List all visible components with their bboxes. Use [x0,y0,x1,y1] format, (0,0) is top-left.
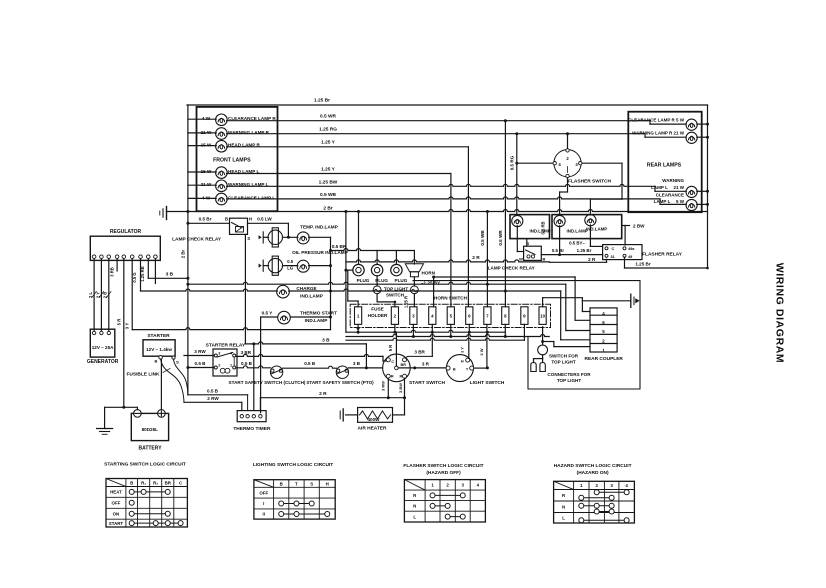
table starting switch logic circuit [106,479,187,528]
svg-text:TOP LIGHT: TOP LIGHT [557,378,582,383]
svg-text:THERMO TIMER: THERMO TIMER [233,426,271,432]
svg-text:0.5 LW: 0.5 LW [257,217,272,222]
ground symbol rear coupler [630,294,632,307]
wire 1.25 Br flasher relay 49 return [624,257,626,268]
svg-text:R₁: R₁ [141,480,146,485]
lamp warning lamp R front [201,128,270,140]
regulator [90,236,160,260]
wire lamp left stub [188,184,216,186]
svg-text:0.5 Br: 0.5 Br [199,217,212,222]
wire 0.5 B starter relay to clutch switch [236,366,270,368]
wire lamp left stub [188,171,216,173]
svg-text:3 W: 3 W [479,348,484,355]
svg-text:1 Y: 1 Y [460,347,465,353]
svg-text:2 B: 2 B [103,292,108,299]
svg-text:12V – 25A: 12V – 25A [92,345,114,350]
starter relay [213,349,237,376]
wire lamp left stub [188,197,216,199]
svg-text:0.5 G: 0.5 G [132,272,137,282]
ground symbol air heater [342,409,344,421]
svg-text:STARTER RELAY: STARTER RELAY [206,343,246,349]
wire 0.5 WR vertical to fuse 8 [504,121,506,307]
fusible link [161,359,184,402]
svg-text:B: B [225,217,228,222]
svg-text:SWITCH: SWITCH [386,293,405,298]
wire relay S to 3 B bus [244,234,246,344]
wire W3 to rear coupler 2 [560,291,562,340]
svg-text:2 Y: 2 Y [95,292,100,298]
wire 0.5 BR to glow plugs [331,249,415,251]
svg-text:WARNING: WARNING [662,178,684,183]
wire 3 B bus [245,342,366,344]
svg-text:B: B [543,257,546,262]
svg-text:LIGHTING SWITCH LOGIC CIRCUIT: LIGHTING SWITCH LOGIC CIRCUIT [253,462,334,468]
wire flasher switch terminal 1 [567,178,569,192]
wire thermo lamp to thermo timer terminal 4 [260,317,262,413]
wire 3 RW to starter relay [184,355,214,357]
svg-text:3: 3 [218,351,220,355]
wire 0.5 BY ind lamp 3 to flasher relay C [589,225,591,246]
table lighting switch logic circuit [254,480,335,519]
fuse 5 [447,307,454,325]
generator [90,329,115,357]
wire 1.25 Y head R [227,146,469,148]
fuse 3 [410,307,417,325]
wire 3 RW start switch R1 down [387,378,389,398]
svg-text:SWITCH FOR: SWITCH FOR [549,353,579,358]
wire ind lamp 1 to relay W [516,226,518,252]
fuse 1 [355,307,362,325]
wire start switch R2 to air heater [404,378,406,415]
svg-text:REGULATOR: REGULATOR [110,229,142,235]
svg-text:R: R [400,375,403,379]
wire bus B under fuses [346,335,549,337]
svg-text:400W: 400W [367,417,380,422]
wire 2 R bottom line [260,397,404,399]
svg-text:R₂: R₂ [153,480,158,485]
wire 0.5 WR clearance R [227,120,650,122]
svg-text:FLASHER RELAY: FLASHER RELAY [642,251,683,257]
wire 1.25 RG warning R [227,133,645,135]
wire 0.5 WB clearance L [227,197,660,199]
lamp ind lamp 3 [585,215,596,226]
svg-text:3 R: 3 R [422,361,430,366]
wire air heater left to ground [346,414,358,416]
svg-text:HEAT: HEAT [110,490,122,495]
svg-text:CONNECTERS FOR: CONNECTERS FOR [547,372,591,377]
svg-text:LAMP L 21 W: LAMP L 21 W [651,185,685,190]
svg-text:C: C [391,360,394,364]
battery [131,413,168,440]
svg-text:B: B [453,367,456,371]
fuse 4 [429,307,436,325]
wire plug feed [376,251,378,265]
ground symbol battery [97,428,113,430]
svg-text:PLUG: PLUG [395,278,408,283]
lamp warning lamp L front [201,180,269,192]
wire 0.5 LW from relay H [248,222,289,224]
horn [405,264,423,272]
svg-text:2 R: 2 R [319,391,327,397]
svg-text:CLEARANCE: CLEARANCE [656,192,684,197]
wire 1 Y light switch H to fuse 6 [468,332,470,358]
fuse holder box [350,304,550,327]
svg-text:CLEARANCE LAMP R 5 W: CLEARANCE LAMP R 5 W [628,117,685,122]
svg-text:L: L [413,514,416,519]
fuse 6 [466,307,473,325]
svg-text:B: B [155,358,158,363]
front lamps box [197,107,278,211]
wire 0.5 Br to relay B [188,222,230,224]
svg-text:3 RB: 3 RB [110,267,115,277]
svg-text:–1.25 BY: –1.25 BY [421,281,440,286]
svg-text:IND.LAMP: IND.LAMP [300,294,323,299]
wire plug 1 left link [345,212,347,333]
lamp head lamp L [201,167,260,179]
svg-text:REAR LAMPS: REAR LAMPS [647,162,682,168]
svg-text:TOP LIGHT: TOP LIGHT [384,286,409,291]
svg-text:FLASHER SWITCH: FLASHER SWITCH [568,179,611,185]
svg-text:0.5 WR: 0.5 WR [498,230,503,246]
flasher relay [603,245,642,260]
svg-text:IND.LAMP: IND.LAMP [586,226,607,231]
svg-text:L: L [562,515,565,520]
lamp thermo start ind lamp [261,316,278,318]
svg-text:1.25 RB: 1.25 RB [140,266,145,281]
svg-text:3 BR: 3 BR [241,350,252,355]
lamp clearance lamp L front [202,193,275,205]
svg-text:3 RW: 3 RW [380,381,385,391]
svg-text:B: B [280,481,283,486]
svg-text:H: H [461,359,464,363]
connecters for top light [542,355,544,359]
lamp clearance lamp R rear [628,117,697,130]
wire 0.5 B clutch to PTO [283,366,337,368]
svg-text:49: 49 [628,255,632,259]
svg-text:W: W [519,257,523,262]
starter [143,340,175,356]
svg-text:IND.LAMP: IND.LAMP [305,318,328,323]
svg-text:0.5 BR: 0.5 BR [332,244,347,249]
svg-text:FUSIBLE LINK: FUSIBLE LINK [126,371,160,377]
fuse 10 [539,307,546,325]
wire 1.25 R horn switch to fuse 3 [413,294,415,307]
svg-text:C: C [612,247,615,251]
svg-text:FRONT LAMPS: FRONT LAMPS [213,157,251,163]
wire bus from regulator terminal 6 [132,328,330,330]
svg-text:1.25 Br: 1.25 Br [635,262,651,267]
fuse 7 [484,307,491,325]
svg-text:2 R: 2 R [588,257,596,262]
svg-text:HOLDER: HOLDER [368,313,388,318]
svg-text:1.25 Br: 1.25 Br [314,98,330,104]
svg-text:3 BW: 3 BW [398,383,403,393]
svg-text:1.25 RG: 1.25 RG [319,127,337,133]
svg-text:0.5 WB: 0.5 WB [320,192,337,198]
fuse 8 [502,307,509,325]
table flasher switch logic circuit [404,480,485,522]
enclosure box lower right [413,281,640,389]
wire thermo timer terminal 3 to 3 B bus [253,344,255,411]
lamp head lamp R [201,140,261,152]
svg-text:II: II [263,512,265,517]
wire fuse 1 top feed [347,270,349,301]
svg-text:T: T [295,481,298,486]
svg-text:WARNING LAMP R 21 W: WARNING LAMP R 21 W [632,130,685,135]
wire flasher switch terminal 3 [582,162,622,164]
wire temp lamp to common [309,236,331,238]
flasher switch [554,150,581,177]
svg-text:IND.LAMP: IND.LAMP [567,228,588,233]
ind lamp box 2 [552,215,622,239]
svg-text:1.25 Br: 1.25 Br [577,248,592,253]
wire battery positive to starter B [160,359,162,413]
svg-text:49a: 49a [628,247,635,251]
svg-text:STARTER: STARTER [147,333,170,339]
wire top light switch to fuse 2 [376,294,378,302]
svg-text:0.5 WR: 0.5 WR [320,114,337,120]
svg-text:HORN SWITCH: HORN SWITCH [434,296,468,301]
wire lamp left stub [188,132,216,134]
wire battery negative to ground [136,407,138,409]
svg-text:START SAFETY SWITCH (PTO): START SAFETY SWITCH (PTO) [306,380,374,385]
wire 2 BW flasher relay 49a [624,226,626,246]
svg-text:31: 31 [611,255,615,259]
wire regulator to generator leads [93,259,95,332]
ground symbol left [166,207,168,220]
wire lamp left stub [188,118,216,120]
thermo timer [237,411,266,422]
temp sender [259,235,262,239]
fuse 9 [521,307,528,325]
wire 3 B PTO to 3 B bus [348,367,382,369]
svg-text:H: H [249,217,252,222]
svg-text:S: S [176,359,179,364]
lamp charge ind lamp [277,285,290,298]
svg-text:REAR COUPLER: REAR COUPLER [585,356,624,362]
svg-text:H: H [326,481,329,486]
top light switch [376,276,378,286]
start safety switch clutch [270,366,282,378]
svg-text:12V – 1.4kw: 12V – 1.4kw [146,347,172,352]
svg-text:0.5 RG: 0.5 RG [510,155,515,170]
oil pressure sender [259,264,262,268]
wire 1.25 Y head L [227,173,451,175]
svg-text:2 L: 2 L [88,292,93,298]
svg-text:FUSE: FUSE [371,306,384,311]
wire 3 R start switch B to light switch [398,367,446,369]
svg-text:BATTERY: BATTERY [138,445,162,451]
wire ind lamp 2 down [559,226,561,255]
wire W2 to rear coupler 5 [565,284,567,330]
svg-text:0.5 Br: 0.5 Br [552,248,564,253]
wire ind lamp common vertical [330,237,332,329]
svg-text:B: B [130,480,133,485]
lamp temp ind lamp [283,236,298,238]
wire thermo timer terminal 4 to 2 R [259,398,261,411]
svg-text:2 RW: 2 RW [207,396,219,401]
svg-text:1: 1 [230,363,232,367]
svg-text:0.5 RB: 0.5 RB [541,221,546,234]
svg-text:OFF: OFF [112,501,121,506]
ind lamp box 1 [510,215,550,239]
svg-text:0.5 WB: 0.5 WB [480,230,485,246]
svg-text:0.5: 0.5 [287,259,293,264]
wire relay S stub [526,239,528,247]
svg-text:2 Br: 2 Br [323,206,332,212]
wire start switch BR to fuse 4 [406,356,433,358]
wire 1.25 Br top ground bus [187,104,708,106]
svg-text:1.25 Y: 1.25 Y [321,140,336,146]
svg-text:PLUG: PLUG [357,278,370,283]
svg-text:0.5 BY–: 0.5 BY– [569,240,585,245]
svg-text:WIRING DIAGRAM: WIRING DIAGRAM [774,263,786,364]
wire left ground bus [187,105,189,395]
svg-text:(HAZARD OFF): (HAZARD OFF) [426,470,461,476]
svg-text:3 B: 3 B [322,338,330,344]
lamp warning lamp R rear [632,130,697,143]
svg-text:BR: BR [165,480,172,485]
wire regulator terminal 6 bus [131,259,133,330]
lamp check relay right [524,246,542,260]
wire 1.25 RB regulator terminal 7 charge lamp line [140,259,142,292]
svg-text:80D26L: 80D26L [142,427,159,432]
wire rear coupler 4 to ground [582,311,590,313]
svg-text:3 Y: 3 Y [125,323,130,330]
svg-text:HAZARD SWITCH LOGIC CIRCUIT: HAZARD SWITCH LOGIC CIRCUIT [554,463,632,469]
svg-text:FLASHER SWITCH LOGIC CIRCUIT: FLASHER SWITCH LOGIC CIRCUIT [403,463,483,469]
svg-text:3 RW: 3 RW [194,349,206,354]
lamp ind lamp 1 [512,215,523,226]
wire oil lamp to common [309,265,331,267]
lamp oil pressure ind lamp [283,265,298,267]
svg-text:START SWITCH: START SWITCH [409,380,445,386]
wire plug 1 ground feed [358,212,360,265]
svg-text:3 B: 3 B [166,271,174,277]
svg-text:2 R: 2 R [472,255,480,261]
svg-text:LIGHT SWITCH: LIGHT SWITCH [470,380,505,386]
svg-text:2 Br: 2 Br [180,249,185,258]
svg-text:I: I [263,501,264,506]
svg-text:CLEARANCE LAMP L: CLEARANCE LAMP L [228,195,275,200]
wire flasher switch terminal 4 to 0.5 RG [517,162,553,164]
start safety switch PTO [336,366,348,378]
svg-text:S: S [247,236,250,241]
wire fuse 10 to rear coupler 1 [541,340,544,343]
wire 1.25 Y vertical to fuse 6 [467,147,469,307]
wire plug feed [395,251,397,265]
svg-text:N: N [413,504,416,509]
wire bus A under fuses [346,330,505,332]
glow plug 3 [391,264,402,275]
svg-text:2 BW: 2 BW [633,224,645,229]
rear lamps box [628,112,701,213]
wire 3 B line from ground bus [188,282,566,284]
wire horn feed [413,251,415,265]
svg-text:R: R [391,375,394,379]
svg-text:HORN: HORN [422,270,436,275]
svg-text:ON: ON [113,511,120,516]
switch for top light [538,345,548,355]
wire 0.5 WB vertical to fuse 7 [486,212,488,307]
svg-text:0.5 B: 0.5 B [207,388,219,393]
svg-text:THERMO START: THERMO START [300,311,337,316]
wire 2 Br ground line [167,210,708,212]
svg-text:10: 10 [540,314,545,319]
lamp check relay left [230,218,248,234]
lamp clearance lamp L rear [654,192,698,210]
svg-text:0.5 B: 0.5 B [304,361,316,366]
svg-text:1.25 Y: 1.25 Y [321,167,336,173]
wire 3 W light switch T [474,367,487,369]
wire 2 RW to thermo timer [184,401,242,403]
lamp ind lamp 2 [554,215,565,226]
wire regulator terminal 4 stub [116,259,118,272]
horn switch [413,277,415,286]
svg-text:N: N [562,504,565,509]
svg-text:0.5 B: 0.5 B [241,361,253,366]
svg-text:LAMP L 5 W: LAMP L 5 W [654,199,685,204]
svg-text:5 R: 5 R [388,345,393,352]
wire 2 R line center [346,260,550,262]
svg-text:BR: BR [401,363,407,367]
wire 0.5 RG vertical to ind lamp 1 [516,134,518,216]
svg-text:0.5 Y: 0.5 Y [262,311,273,316]
lamp clearance lamp R front [202,114,276,126]
svg-text:(HAZARD ON): (HAZARD ON) [577,470,609,476]
svg-text:GENERATOR: GENERATOR [87,359,119,365]
svg-text:START: START [109,521,124,526]
svg-text:3 B: 3 B [353,361,361,366]
air heater [358,408,393,423]
glow plug 2 [371,264,382,275]
svg-text:2: 2 [218,363,220,367]
wire 3 B regulator terminal 8 [147,259,149,279]
wire 0.5 Br 1.25 Br relay B to flasher relay [541,254,602,256]
wire 5 R regulator terminal 5 to battery ground line [123,259,125,408]
svg-text:1.25 BW: 1.25 BW [319,180,338,186]
svg-text:TOP LIGHT: TOP LIGHT [551,360,576,365]
svg-text:AIR HEATER: AIR HEATER [358,425,387,431]
wire 2 R right segment [550,261,607,263]
wire 1.25 Y vertical to fuse 5 [450,174,452,307]
svg-text:5 R: 5 R [116,318,121,326]
svg-text:LAMP CHECK RELAY: LAMP CHECK RELAY [488,265,535,270]
svg-text:0.5 B: 0.5 B [195,361,207,366]
svg-text:S: S [310,481,313,486]
svg-text:START SAFETY SWITCH (CLUTCH): START SAFETY SWITCH (CLUTCH) [229,380,306,385]
wire 0.5 B to starter relay [188,367,214,369]
wire regulator terminal 9 stub [154,259,156,284]
wire fuse 10 top to ground line [542,298,544,307]
light switch [446,355,473,382]
wire 1.25 BW warning L [227,184,655,186]
svg-text:OFF: OFF [259,490,268,495]
start switch [383,354,411,382]
svg-text:TEMP. IND.LAMP: TEMP. IND.LAMP [300,225,338,230]
wire fuse bottom stubs [357,324,359,332]
wire 3 BR from starter relay to start switch C [236,354,383,356]
fuse 2 [391,307,398,325]
wire 0.5 B to thermo timer [188,394,248,396]
lamp warning lamp L rear [651,178,697,197]
table hazard switch logic circuit [554,481,635,523]
svg-text:3 BR: 3 BR [414,350,425,355]
svg-text:STARTING SWITCH LOGIC CIRCUIT: STARTING SWITCH LOGIC CIRCUIT [104,462,186,468]
wire bus C under fuses [346,338,524,340]
wire right ground bus [707,105,709,268]
wire lamp left stub [188,145,216,147]
